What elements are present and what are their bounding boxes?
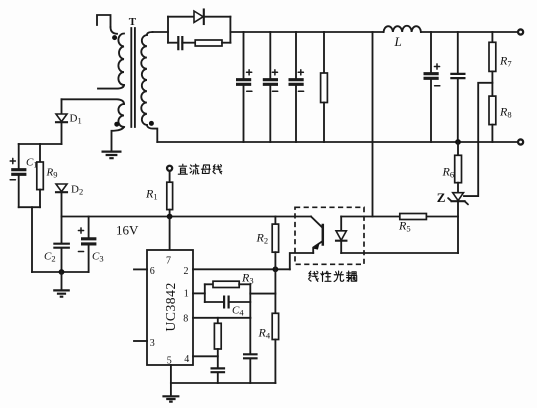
wire secondary bottom to bottom bus [147, 125, 157, 142]
wire cap to ground rail [249, 360, 251, 384]
wire cap to resistor [182, 42, 195, 44]
resistor bleeder [321, 32, 328, 142]
zener/reference Z [448, 193, 468, 205]
capacitor C3 [81, 217, 96, 273]
wire snubber right vertical [229, 17, 231, 43]
capacitor C4 [224, 296, 229, 309]
label text xian (DC bus) [213, 165, 222, 174]
svg-text:1: 1 [184, 289, 189, 300]
svg-text:6: 6 [150, 266, 155, 277]
label text zhi (DC bus) [178, 164, 187, 174]
ground chip [162, 396, 179, 401]
label text guang (opto) [334, 271, 344, 282]
svg-text:4: 4 [184, 354, 189, 365]
wire C4 to right node [229, 301, 251, 303]
dashed box linear optocoupler [295, 207, 364, 264]
wire snubber top branch [168, 16, 230, 18]
polarity dot auxiliary [114, 122, 119, 127]
svg-text:2: 2 [184, 266, 189, 277]
inductor L [384, 26, 421, 32]
wire CT to ground rail [217, 373, 219, 383]
phototransistor optocoupler [311, 217, 323, 254]
junction 16V rail R1 [167, 214, 173, 220]
wire bottom bus [157, 141, 517, 143]
svg-text:D1: D1 [70, 113, 82, 126]
capacitor output C-c [289, 32, 304, 142]
svg-text:R7: R7 [499, 54, 512, 69]
svg-text:C1: C1 [26, 157, 38, 170]
diode D2 [56, 184, 67, 217]
wire pin8 net [193, 317, 250, 319]
resistor R7 [489, 32, 496, 71]
label text ou (opto) [347, 271, 357, 281]
wire top bus left [230, 31, 383, 33]
svg-text:D2: D2 [71, 184, 83, 197]
plus sign C1 [10, 158, 15, 163]
svg-text:UC3842: UC3842 [163, 282, 178, 331]
wire zener down [457, 201, 459, 253]
wire comp right node [249, 284, 251, 318]
plus sign cap b [272, 70, 277, 75]
terminal output minus [518, 139, 523, 144]
svg-text:C4: C4 [232, 305, 244, 318]
svg-text:T: T [129, 16, 137, 28]
resistor RT timing [214, 318, 221, 368]
wire pin3 stub [134, 340, 147, 342]
label text mu (DC bus) [201, 165, 210, 173]
plus sign cap a [247, 70, 252, 75]
wire pin8 chain down [249, 318, 251, 353]
wire snubber left vertical [167, 17, 169, 43]
wire pin5 to ground [170, 365, 172, 396]
wire ground rail left [32, 271, 89, 273]
wire right node to R2 chain [250, 293, 275, 295]
resistor R2 [272, 217, 278, 270]
plus sign cap d [434, 64, 439, 69]
wire R3 to right node [239, 283, 250, 285]
svg-text:L: L [394, 34, 402, 49]
wire opto top / R5 net [341, 216, 458, 218]
diode snubber/rectifier [194, 10, 204, 25]
resistor R4 [272, 313, 278, 383]
wire auxiliary to ground [112, 127, 125, 151]
junction bottom bus R6 [455, 139, 461, 145]
wire pin2 net [193, 268, 290, 270]
resistor R9 [37, 144, 44, 207]
resistor snubber [195, 40, 222, 46]
LED optocoupler [336, 217, 346, 254]
wire drop to ground rail [31, 207, 33, 272]
ground transformer [102, 152, 122, 159]
svg-text:R2: R2 [256, 231, 269, 246]
winding auxiliary [118, 104, 124, 127]
transformer T [62, 15, 158, 158]
wire opto bottom [341, 252, 458, 254]
svg-text:16V: 16V [116, 223, 139, 238]
winding primary top [111, 27, 118, 34]
capacitor C1 [11, 144, 26, 207]
junction pin2 R2 [273, 266, 279, 272]
polarity dot primary top [112, 35, 117, 40]
minus sign cap c [298, 90, 303, 92]
resistor R6 [455, 142, 462, 193]
capacitor snubber [178, 36, 182, 50]
minus sign cap b [273, 90, 278, 92]
wire aux rectifier chain top [61, 99, 63, 114]
wire top bus right [421, 31, 518, 33]
svg-text:Z: Z [437, 190, 446, 205]
resistor R8 [489, 96, 496, 142]
minus sign cap a [247, 90, 252, 92]
wire feed to opto branch [372, 32, 374, 217]
svg-text:R8: R8 [499, 105, 512, 120]
winding secondary [147, 32, 153, 35]
wire 16V rail [62, 216, 312, 218]
ground left [53, 290, 70, 296]
label text xian (opto) [308, 271, 318, 281]
plus sign cap c [298, 70, 303, 75]
wire comp network left node [204, 284, 206, 302]
capacitor output C-a [236, 32, 251, 142]
svg-text:R4: R4 [258, 326, 271, 341]
wire snubber bottom branch left [168, 42, 177, 44]
op-amp/PWM chip UC3842 [147, 250, 193, 365]
wire R7 to R8 [491, 71, 493, 96]
resistor R1 [167, 171, 173, 217]
junction ground rail [59, 269, 65, 275]
capacitor pin8 chain [243, 354, 258, 358]
wire aux winding top lead [62, 99, 125, 104]
wire secondary top to snubber [153, 31, 169, 33]
capacitor after L film [450, 32, 465, 142]
svg-text:3: 3 [150, 338, 155, 349]
minus sign C1 [10, 179, 15, 181]
minus sign C3 [78, 251, 83, 253]
wire pin7 stub [169, 217, 171, 251]
wire to ground 2 [61, 272, 63, 290]
node DC bus terminal [167, 166, 172, 171]
diode D1 [56, 114, 67, 144]
resistor R3 [213, 281, 239, 287]
minus sign cap d [435, 85, 440, 87]
wire emitter step to pin2 net [290, 253, 313, 269]
wire primary top lead [97, 15, 111, 27]
polarity dot secondary [149, 121, 154, 126]
svg-text:R5: R5 [398, 219, 411, 234]
terminal output plus [518, 29, 523, 34]
wire primary top bottom lead [98, 85, 124, 89]
label text liu (DC bus) [190, 164, 199, 174]
capacitor after L electrolytic [424, 32, 439, 142]
svg-text:R6: R6 [442, 165, 455, 180]
wire snubber bottom branch right [222, 42, 230, 44]
svg-text:C3: C3 [92, 251, 104, 264]
capacitor CT timing [211, 368, 226, 372]
wire feedback divider tap [464, 83, 492, 196]
wire pin1 stub [193, 292, 205, 294]
wire C1 R9 bottom [19, 206, 40, 208]
svg-text:C2: C2 [44, 251, 56, 264]
wire pin6 stub [134, 268, 147, 270]
svg-text:R1: R1 [145, 187, 158, 202]
svg-text:7: 7 [166, 256, 171, 267]
wire R2 chain to R4 [274, 269, 276, 313]
wire C1 R9 top [19, 143, 62, 145]
capacitor C2 [53, 217, 70, 273]
plus sign C3 [78, 228, 83, 233]
capacitor output C-b [263, 32, 278, 142]
wire pin4 stub [193, 355, 218, 357]
core [131, 28, 135, 127]
svg-text:8: 8 [183, 314, 188, 325]
svg-text:R9: R9 [46, 167, 58, 180]
label text xing (opto) [321, 271, 331, 281]
resistor R5 [400, 214, 427, 220]
wire chip ground rail [171, 382, 276, 384]
wire comp bottom branch [205, 301, 224, 303]
wire comp network top branch [205, 283, 213, 285]
svg-text:R3: R3 [241, 271, 254, 286]
